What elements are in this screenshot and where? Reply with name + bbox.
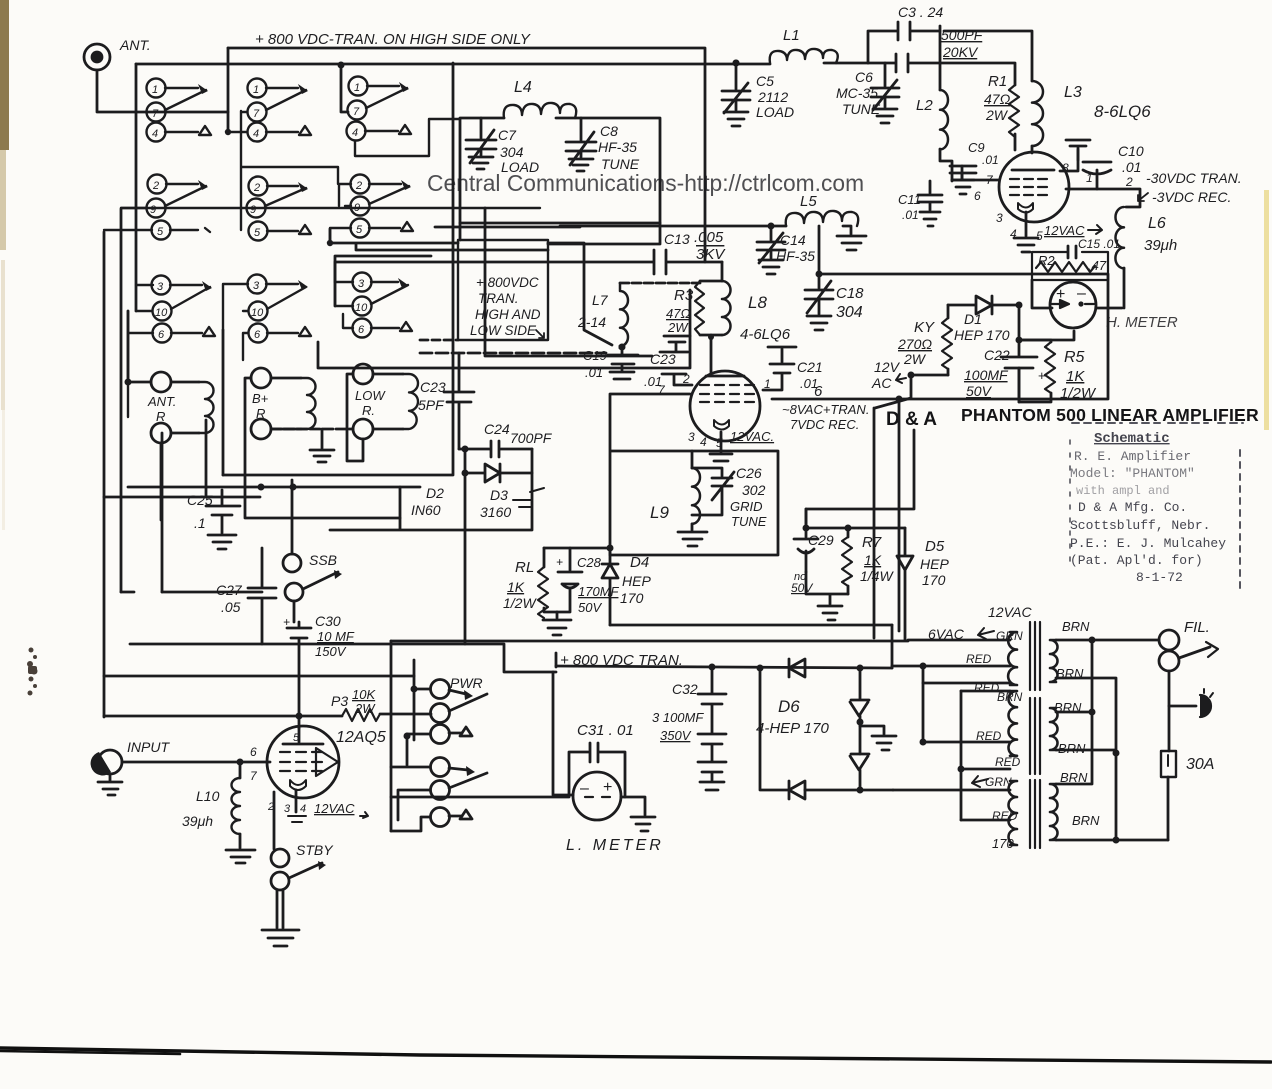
svg-text:30A: 30A (1186, 756, 1214, 773)
svg-text:H. METER: H. METER (1106, 314, 1178, 331)
svg-text:1K: 1K (1066, 368, 1085, 385)
meter L (566, 772, 664, 854)
wire second bus (136, 63, 868, 64)
relay coil B+ R (251, 368, 316, 439)
svg-text:C31 . 01: C31 . 01 (577, 722, 634, 739)
capacitor C28 170MF 50V (556, 548, 620, 615)
resistor R3 47 2W (666, 281, 704, 335)
wire FIL drop (1169, 671, 1196, 706)
svg-text:2W: 2W (903, 351, 927, 367)
svg-text:7: 7 (353, 106, 360, 118)
svg-text:GRID: GRID (730, 499, 763, 514)
ground under jack (98, 774, 122, 795)
switch bank column 2 group 3 (223, 275, 311, 361)
svg-text:L4: L4 (514, 79, 532, 96)
svg-text:P3: P3 (331, 693, 348, 709)
svg-text:RED: RED (995, 755, 1021, 769)
svg-text:ANT.: ANT. (147, 394, 176, 409)
svg-text:7: 7 (253, 108, 260, 120)
svg-text:2W: 2W (354, 701, 376, 716)
variable capacitor C7 304 LOAD (466, 118, 539, 175)
svg-text:C7: C7 (498, 127, 517, 143)
svg-text:L7: L7 (592, 292, 609, 308)
diode D6b (850, 668, 869, 754)
resistor R7 1K 1/4W (842, 528, 894, 594)
svg-text:RED: RED (992, 809, 1018, 823)
svg-text:TRAN.: TRAN. (478, 291, 519, 306)
wire T3 top tap (893, 789, 1010, 792)
antenna jack ANT (84, 44, 110, 70)
inductor L10 (182, 759, 255, 864)
wire pin2 to L6 (1066, 189, 1140, 207)
svg-text:5: 5 (716, 436, 723, 450)
svg-text:+: + (603, 779, 612, 796)
inductor L8 (700, 281, 791, 343)
SEC_BOTTOMLEFT (91, 592, 908, 946)
transformer T2 core (1030, 698, 1040, 774)
svg-text:C15 .01: C15 .01 (1078, 237, 1120, 251)
wire C13 down to L8 node (721, 262, 724, 281)
svg-text:10K: 10K (352, 687, 376, 702)
transformer T1 primary (1008, 632, 1017, 685)
wire input to tube (122, 761, 270, 764)
svg-text:P.E.: E. J. Mulcahey: P.E.: E. J. Mulcahey (1070, 536, 1226, 551)
svg-text:STBY: STBY (296, 842, 334, 858)
svg-text:D6: D6 (778, 697, 800, 716)
capacitor C21 .01 (763, 347, 823, 391)
svg-text:+ 800VDC: + 800VDC (476, 275, 539, 290)
wire sec interconnects (1056, 640, 1168, 840)
switch bank column 3 group 2 (242, 167, 413, 243)
svg-text:150V: 150V (315, 644, 347, 659)
wire meter links (1019, 280, 1122, 340)
svg-text:12AQ5: 12AQ5 (336, 729, 386, 746)
svg-text:TUNE: TUNE (731, 514, 767, 529)
switch SSB (283, 480, 342, 622)
svg-text:L10: L10 (196, 788, 220, 804)
switch bank column 3 group 3 (335, 273, 412, 338)
svg-text:C23: C23 (650, 351, 676, 367)
capacitor C25 .1 (187, 490, 240, 549)
svg-text:4-HEP 170: 4-HEP 170 (756, 720, 829, 737)
svg-text:Central Communications-http://: Central Communications-http://ctrlcom.co… (427, 170, 864, 196)
wire C24/D3 branch (330, 449, 532, 644)
svg-text:TUNE: TUNE (601, 156, 640, 172)
SEC_TEXTBLOCKS (427, 170, 1259, 590)
SEC_LEFTMID (104, 209, 474, 728)
svg-text:R7: R7 (862, 534, 882, 551)
switch STBY (262, 842, 334, 946)
svg-text:R1: R1 (988, 73, 1007, 90)
svg-text:39μh: 39μh (182, 813, 213, 829)
wire g3 links (128, 285, 153, 417)
diode bridge D6 4-HEP170 (756, 659, 896, 799)
wire bridge (760, 668, 893, 790)
svg-text:C24: C24 (484, 421, 510, 437)
capacitor C13 .005 3KV (335, 229, 726, 282)
resistor R1 47 2W (940, 63, 1019, 150)
svg-text:304: 304 (836, 304, 863, 321)
inductor L7 2-14 (577, 283, 700, 348)
wire step g2 (548, 223, 660, 244)
svg-text:LOW: LOW (355, 388, 386, 403)
svg-text:1K: 1K (864, 552, 882, 568)
svg-text:C28: C28 (577, 555, 602, 570)
SEC_TRANSFORMER (892, 604, 1218, 851)
svg-text:R. E. Amplifier: R. E. Amplifier (1074, 449, 1191, 464)
svg-text:D & A Mfg. Co.: D & A Mfg. Co. (1078, 500, 1187, 515)
wire L5 drop to C18 (818, 226, 821, 288)
inductor L6 39uh (1115, 207, 1177, 308)
wire KY to 12VAC node (874, 375, 948, 638)
svg-text:+: + (556, 555, 563, 569)
svg-text:C21: C21 (797, 359, 823, 375)
svg-text:20KV: 20KV (942, 44, 979, 60)
tube V2 4-6LQ6 (658, 371, 823, 461)
relay coil LOW R (353, 364, 418, 439)
svg-text:.01: .01 (982, 153, 999, 167)
svg-text:.05: .05 (221, 599, 241, 615)
resistor R2 .47 with C15 (1032, 237, 1120, 280)
wire step col3 g2 to right (330, 229, 548, 250)
svg-text:PWR: PWR (450, 675, 483, 691)
capacitor C11 .01 (898, 181, 942, 226)
svg-text:8: 8 (1062, 161, 1069, 175)
svg-text:~8VAC+TRAN.: ~8VAC+TRAN. (782, 402, 869, 417)
variable capacitor C18 304 (805, 281, 864, 330)
scan right edge strip (1264, 190, 1269, 430)
svg-text:+ 800 VDC-TRAN. ON HIGH SIDE: + 800 VDC-TRAN. ON HIGH SIDE ONLY (255, 31, 531, 48)
svg-text:4: 4 (300, 803, 306, 815)
svg-text:6: 6 (250, 745, 257, 759)
capacitor C3 .24 500PF 20KV (868, 4, 984, 90)
svg-text:L6: L6 (1148, 215, 1166, 232)
node dot (619, 344, 626, 351)
capacitor C10 .01 (1060, 140, 1144, 189)
svg-text:9: 9 (250, 204, 256, 216)
scan smudge mark (27, 648, 38, 696)
svg-text:D5: D5 (925, 538, 945, 555)
svg-text:with ampl and: with ampl and (1076, 484, 1170, 498)
switch bank PWR (431, 675, 488, 827)
wire B+R bottom to ground (271, 428, 353, 431)
wire RED T2 bottom (961, 768, 1010, 771)
svg-text:2: 2 (253, 182, 260, 194)
SEC_TOPRIGHT (560, 4, 1242, 638)
svg-text:1K: 1K (507, 579, 525, 595)
svg-text:R3: R3 (674, 287, 694, 304)
node dot (733, 60, 740, 67)
svg-text:9: 9 (354, 202, 360, 214)
svg-text:AC: AC (871, 375, 892, 391)
transformer T1 secondary (1050, 640, 1058, 682)
svg-text:L5: L5 (800, 193, 817, 210)
svg-text:3: 3 (253, 280, 260, 292)
wire T1 sec top to FIL (1056, 639, 1159, 642)
svg-text:7: 7 (250, 769, 258, 783)
svg-text:D2: D2 (426, 485, 444, 501)
svg-text:R: R (156, 409, 165, 424)
svg-text:KY: KY (914, 319, 935, 336)
wire C29/R7 bottom to ground (806, 572, 848, 620)
svg-text:C14: C14 (780, 232, 806, 248)
switch bank column 1 group 1 (contacts 1,7,4) (147, 79, 212, 142)
svg-text:2: 2 (1125, 175, 1133, 189)
svg-text:FIL.: FIL. (1184, 619, 1210, 636)
wire PWR bank links (391, 641, 430, 831)
svg-text:10 MF: 10 MF (317, 629, 355, 644)
svg-text:4: 4 (352, 127, 358, 139)
tube V1 6LQ6 (974, 152, 1133, 252)
svg-text:10: 10 (155, 307, 168, 319)
svg-text:50V: 50V (966, 383, 993, 399)
capacitor C22 100MF 50V (964, 305, 1046, 402)
wire B+R riser (245, 378, 400, 518)
diode D2 label (411, 485, 544, 518)
switch bank column 2 group 2 (121, 111, 540, 241)
capacitor C23b .01 (644, 336, 692, 389)
wire 485 bottom step (485, 330, 652, 356)
svg-text:C6: C6 (855, 69, 873, 85)
svg-text:6: 6 (158, 329, 165, 341)
svg-text:12VAC: 12VAC (988, 604, 1032, 620)
svg-text:3160: 3160 (480, 504, 511, 520)
svg-text:1/4W: 1/4W (860, 568, 894, 584)
svg-text:50V: 50V (578, 600, 602, 615)
svg-text:12VAC: 12VAC (314, 801, 355, 816)
800vdc tran note box (420, 240, 548, 340)
wire 800vdc bus (556, 666, 892, 668)
variable capacitor C5 2112 LOAD (722, 60, 794, 127)
variable capacitor C8 HF-35 TUNE (566, 118, 640, 172)
svg-text:RED: RED (966, 652, 992, 666)
svg-text:2112: 2112 (757, 89, 788, 105)
wire tube2 enclosure (610, 394, 778, 555)
wire riser x485 (484, 208, 487, 330)
wire 800box right link (548, 243, 612, 345)
capacitor C29 (791, 509, 834, 595)
label 8VAC TRAN 7VDC REC (782, 402, 869, 432)
svg-text:3 100MF: 3 100MF (652, 710, 704, 725)
svg-text:RED: RED (974, 681, 1000, 695)
svg-text:6: 6 (974, 189, 981, 203)
tube 12AQ5 (250, 726, 386, 849)
ground RL/C28 (543, 612, 571, 635)
svg-text:6: 6 (358, 324, 365, 336)
wire mid dashed run (420, 352, 606, 355)
svg-text:C8: C8 (600, 123, 618, 139)
wire col2 g1 links (228, 131, 247, 133)
svg-text:.01: .01 (1122, 159, 1141, 175)
svg-text:C3 . 24: C3 . 24 (898, 4, 943, 20)
wire nest horizontals (223, 368, 453, 475)
transformer T1 core (1030, 622, 1040, 690)
svg-text:ANT.: ANT. (119, 37, 151, 53)
svg-text:8-1-72: 8-1-72 (1136, 570, 1183, 585)
svg-text:Scottsbluff, Nebr.: Scottsbluff, Nebr. (1070, 518, 1210, 533)
svg-text:2W: 2W (985, 107, 1009, 123)
inductor L3 (944, 31, 1082, 153)
svg-text:BRN: BRN (1062, 619, 1090, 634)
SEC_MID (610, 336, 869, 555)
SEC_TOPLEFT (84, 31, 868, 311)
switch bank column 2 group 1 (228, 79, 311, 142)
svg-text:-30VDC TRAN.: -30VDC TRAN. (1146, 170, 1242, 186)
switch bank column 1 group 3 (contacts 3,10,6) (128, 276, 215, 418)
svg-text:C25: C25 (187, 492, 213, 508)
svg-text:4: 4 (700, 435, 707, 449)
svg-text:39μh: 39μh (1144, 237, 1177, 254)
svg-text:1: 1 (253, 84, 259, 96)
svg-text:3: 3 (358, 278, 365, 290)
capacitor C32 3x100MF 350V (652, 668, 726, 790)
wire right enclosure (772, 274, 1108, 399)
svg-text:D4: D4 (630, 554, 649, 571)
svg-text:170: 170 (620, 590, 644, 606)
capacitor C9 .01 (950, 140, 999, 194)
svg-text:+: + (283, 615, 290, 629)
svg-text:10: 10 (251, 307, 264, 319)
resistor RL 1K 1/2W (503, 548, 557, 618)
svg-text:270Ω: 270Ω (897, 336, 932, 352)
wire col3 g3 links (335, 282, 353, 328)
svg-text:5: 5 (293, 732, 300, 744)
svg-text:2-14: 2-14 (577, 314, 606, 330)
transformer T2 primary (1008, 691, 1017, 756)
svg-text:.01: .01 (644, 374, 662, 389)
svg-text:302: 302 (742, 482, 766, 498)
inductor L5 (560, 193, 866, 250)
svg-text:5: 5 (157, 226, 164, 238)
transformer T3 primary (1009, 781, 1018, 845)
wire L meter feed (391, 796, 569, 799)
svg-text:7VDC REC.: 7VDC REC. (790, 417, 859, 432)
svg-text:–: – (1077, 285, 1086, 302)
svg-text:304: 304 (500, 144, 524, 160)
svg-text:4: 4 (152, 128, 158, 140)
svg-text:3: 3 (284, 803, 291, 815)
svg-text:HEP 170: HEP 170 (954, 327, 1010, 343)
wire long horizontals (130, 644, 556, 672)
capacitor C23 5PF (418, 353, 474, 449)
wire pin6 drop (898, 399, 901, 631)
svg-text:2: 2 (152, 180, 159, 192)
svg-text:LOW SIDE: LOW SIDE (470, 323, 537, 338)
svg-text:TUNE: TUNE (842, 101, 881, 117)
capacitor C30 electrolytic (283, 613, 355, 728)
svg-text:5: 5 (254, 227, 261, 239)
svg-text:12VAC: 12VAC (1044, 223, 1085, 238)
label 12V AC (871, 359, 906, 391)
svg-text:R: R (256, 406, 265, 421)
svg-text:C26: C26 (736, 465, 762, 481)
wire RED tap2 (923, 682, 1010, 685)
svg-text:BRN: BRN (1072, 813, 1100, 828)
svg-text:Schematic: Schematic (1094, 431, 1170, 447)
node dot (1016, 302, 1023, 309)
resistor P3 10K 2W (104, 687, 431, 721)
wire long horizontal under g3 (318, 290, 690, 368)
svg-text:47Ω: 47Ω (984, 91, 1011, 107)
wire left vertical column (135, 64, 138, 311)
svg-text:.1: .1 (194, 515, 206, 531)
svg-text:2: 2 (267, 801, 274, 813)
plug connector (1200, 689, 1213, 717)
capacitor C26 302 GRID TUNE (692, 465, 767, 529)
wire g2 links (104, 208, 152, 230)
transformer T3 secondary (1050, 784, 1058, 840)
svg-text:L9: L9 (650, 503, 669, 522)
wire left long verticals (104, 209, 223, 717)
svg-text:C29: C29 (808, 532, 834, 548)
svg-text:–: – (580, 780, 589, 797)
svg-text:3: 3 (688, 430, 695, 444)
wire col2 g3 riser (223, 284, 248, 360)
svg-text:350V: 350V (660, 728, 692, 743)
diode D4 HEP 170 (602, 548, 651, 625)
label -30VDC (1138, 170, 1242, 205)
diode D6c (850, 754, 869, 790)
switch bank column 3 group 1 (347, 77, 461, 157)
svg-text:4-6LQ6: 4-6LQ6 (740, 326, 791, 343)
svg-text:(Pat. Apl'd. for): (Pat. Apl'd. for) (1070, 553, 1203, 568)
svg-text:IN60: IN60 (411, 502, 441, 518)
SEC_TOPMID (330, 79, 791, 644)
svg-text:4: 4 (253, 128, 259, 140)
svg-text:C19: C19 (583, 348, 607, 363)
diode D6a (789, 659, 805, 677)
diode D5 HEP 170 (897, 528, 949, 640)
svg-text:L. METER: L. METER (566, 837, 664, 854)
svg-text:5: 5 (1036, 229, 1043, 243)
svg-text:HIGH AND: HIGH AND (475, 307, 541, 322)
svg-text:2W: 2W (667, 320, 689, 335)
relay coil ANT R (147, 372, 214, 443)
interbank step wires (318, 63, 690, 368)
svg-text:C5: C5 (756, 73, 774, 89)
svg-text:-3VDC REC.: -3VDC REC. (1152, 189, 1231, 205)
wire top rail RL/C28/D4 (544, 547, 610, 550)
svg-text:1: 1 (354, 82, 360, 94)
wire C29/R7 top rail (806, 430, 914, 528)
svg-text:.01: .01 (585, 365, 603, 380)
svg-text:47Ω: 47Ω (666, 306, 690, 321)
svg-text:12V: 12V (874, 359, 901, 375)
svg-text:BRN: BRN (1058, 741, 1086, 756)
svg-text:.47: .47 (1088, 258, 1107, 273)
wire (128, 382, 161, 520)
svg-text:INPUT: INPUT (127, 739, 170, 755)
wire RED tap1 (892, 665, 1010, 668)
svg-text:10: 10 (355, 302, 368, 314)
schematic credits text block (1070, 423, 1243, 590)
inductor L4 (504, 79, 577, 118)
wire col3 g2 links (242, 167, 351, 243)
capacitor C19 .01 (583, 347, 638, 380)
svg-text:C30: C30 (315, 613, 341, 629)
meter H (1050, 282, 1178, 331)
svg-text:170: 170 (992, 836, 1014, 851)
wire vertical riser (227, 48, 230, 132)
svg-text:MC-35: MC-35 (836, 85, 878, 101)
svg-text:LOAD: LOAD (501, 159, 539, 175)
svg-text:3KV: 3KV (696, 246, 726, 263)
svg-text:HEP: HEP (920, 556, 949, 572)
wire 6vac top tap (908, 639, 1010, 642)
svg-text:R.: R. (362, 403, 375, 418)
svg-text:9: 9 (150, 204, 156, 216)
svg-text:4: 4 (1010, 227, 1017, 241)
